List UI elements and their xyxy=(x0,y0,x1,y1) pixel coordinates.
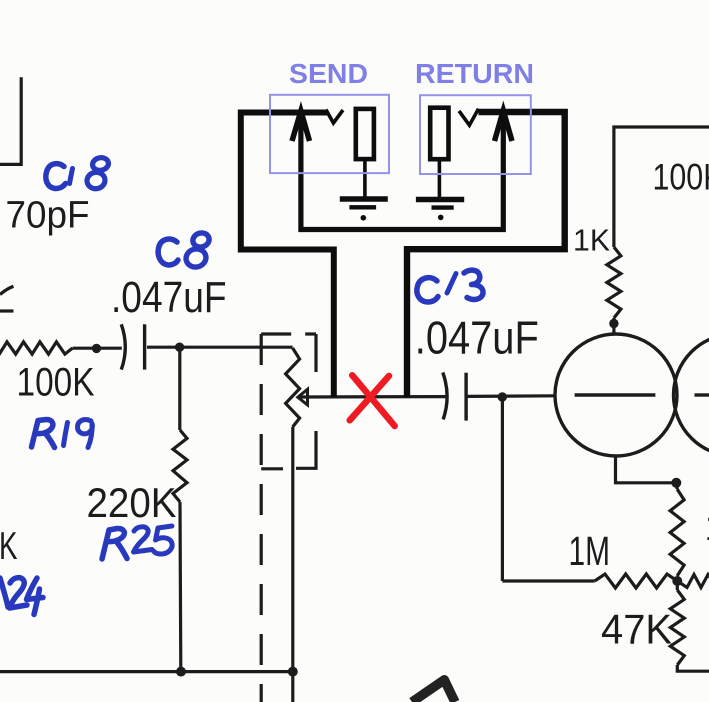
tube triode circle 1 xyxy=(555,334,677,456)
return jack switch contact V xyxy=(459,109,479,125)
wire send loop (thick) xyxy=(241,113,334,398)
ground (send) xyxy=(340,196,388,201)
potentiometer wiper arrow xyxy=(298,389,308,405)
wire main signal line with wiper xyxy=(300,395,446,399)
node junction dot xyxy=(92,344,101,353)
resistor 1K zigzag xyxy=(607,247,621,318)
return jack sleeve contact xyxy=(430,108,448,160)
node junction dot 1M/47K xyxy=(672,576,682,586)
wire C13 to tube xyxy=(468,394,557,398)
node junction dot pot bottom xyxy=(288,667,298,677)
selection box SEND xyxy=(270,95,389,173)
svg-text:1K: 1K xyxy=(573,223,610,258)
capacitor C13 xyxy=(443,373,447,420)
wire feedback down from C13 node xyxy=(501,397,504,581)
handwritten C8 xyxy=(158,239,178,265)
tube triode circle 2 (partial) xyxy=(674,334,709,456)
capacitor (partial, left edge) xyxy=(0,286,14,294)
potentiometer element xyxy=(286,348,300,427)
wire 47K bottom xyxy=(677,665,709,671)
marker caret bottom xyxy=(412,680,455,702)
svg-text:100K: 100K xyxy=(17,361,95,405)
wire bottom bus xyxy=(0,670,295,673)
svg-text:220K: 220K xyxy=(87,479,177,526)
svg-text:100K: 100K xyxy=(653,155,709,197)
node junction dot cathode xyxy=(671,478,681,488)
handwritten C18 xyxy=(46,164,66,189)
handwritten R25 xyxy=(102,528,124,559)
selection box RETURN xyxy=(420,95,531,174)
svg-text:1M: 1M xyxy=(569,528,611,574)
svg-text:K: K xyxy=(0,525,18,568)
wire tube cathode down xyxy=(616,456,678,483)
wire top right xyxy=(614,127,709,247)
svg-text:.047uF: .047uF xyxy=(111,274,227,322)
svg-text:RETURN: RETURN xyxy=(415,58,534,89)
handwritten C13 xyxy=(417,278,438,302)
node junction dot C8 output xyxy=(175,343,184,352)
send jack switch contact V xyxy=(326,110,343,124)
capacitor C8 xyxy=(121,324,125,369)
resistor 1M zigzag xyxy=(595,574,678,588)
wire sleeve to ground (send) xyxy=(363,159,367,197)
resistor R19 100K zigzag xyxy=(0,342,73,354)
ground (return) xyxy=(416,197,464,202)
wire pot bottom lead xyxy=(291,427,294,702)
svg-text:70pF: 70pF xyxy=(6,195,90,237)
svg-text:SEND: SEND xyxy=(289,58,368,89)
wire C8 to pot xyxy=(147,346,293,349)
wire 100K to C8 xyxy=(73,347,122,350)
send jack sleeve contact xyxy=(356,109,374,159)
wire inner send-return link (thick) xyxy=(301,114,503,230)
resistor 47K zigzag xyxy=(670,590,684,665)
resistor partial right of 1M node xyxy=(677,575,709,588)
svg-text:1K: 1K xyxy=(705,507,709,549)
node junction dot 1K / tube top xyxy=(609,319,618,328)
wire return loop (thick) xyxy=(407,112,565,397)
wire top-left stub xyxy=(0,77,21,164)
resistor R25 220K xyxy=(178,347,181,430)
node junction dot C13 output xyxy=(498,392,507,401)
svg-text:.047uF: .047uF xyxy=(415,312,539,364)
send jack tip arrow xyxy=(292,111,310,141)
handwritten 24 partial xyxy=(0,578,8,607)
crossed-out mark red X xyxy=(352,375,395,426)
resistor vertical between nodes xyxy=(670,489,684,576)
handwritten R19 xyxy=(32,420,53,448)
svg-text:47K: 47K xyxy=(601,606,672,653)
return jack tip arrow xyxy=(495,111,513,142)
wire to 1M xyxy=(502,579,594,582)
dashed enclosure around pot xyxy=(261,332,316,335)
node junction dot 220K bottom xyxy=(176,667,186,677)
wire sleeve to ground (return) xyxy=(438,159,442,197)
